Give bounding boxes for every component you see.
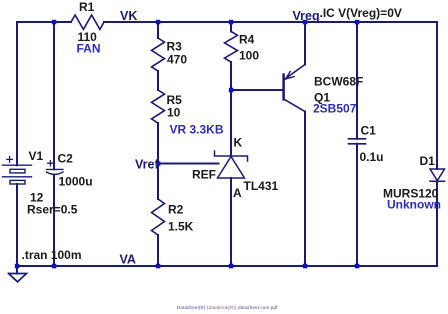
- svg-text:0.1u: 0.1u: [360, 150, 384, 164]
- svg-text:REF: REF: [192, 168, 216, 182]
- wire C2 column upper: [53, 22, 55, 169]
- svg-text:TL431: TL431: [244, 179, 279, 193]
- svg-text:R4: R4: [239, 33, 255, 47]
- svg-text:2SB507: 2SB507: [313, 102, 357, 116]
- wire top rail left: [17, 21, 71, 23]
- wire emitter up: [304, 22, 306, 65]
- transistor Q1: [284, 65, 305, 112]
- wire R2 bottom: [157, 235, 159, 266]
- wire top rail right: [104, 21, 437, 23]
- wire R3-R5: [157, 71, 159, 90]
- svg-text:BCW68F: BCW68F: [314, 75, 363, 89]
- svg-text:1000u: 1000u: [59, 175, 93, 189]
- svg-text:R1: R1: [79, 0, 95, 14]
- capacitor C1: [349, 139, 366, 144]
- diode D1: [430, 169, 445, 181]
- svg-text:VA: VA: [120, 253, 136, 267]
- svg-text:C2: C2: [58, 152, 74, 166]
- node junction R4 top: [229, 20, 234, 25]
- wire REF from Vref: [158, 163, 219, 165]
- node junction C1 bottom: [355, 264, 360, 269]
- svg-text:Vreg: Vreg: [293, 9, 320, 23]
- svg-text:Unknown: Unknown: [387, 198, 441, 212]
- wire base: [231, 89, 283, 91]
- svg-text:.tran 100m: .tran 100m: [22, 248, 82, 262]
- wire R3 top stub: [157, 22, 159, 38]
- ground: [16, 266, 18, 274]
- svg-text:.IC V(Vreg)=0V: .IC V(Vreg)=0V: [320, 6, 402, 20]
- svg-text:Rser=0.5: Rser=0.5: [27, 203, 78, 217]
- svg-text:R2: R2: [168, 203, 184, 217]
- node junction collector: [303, 264, 308, 269]
- wire C1 column lower: [356, 144, 358, 266]
- resistor R1: [71, 15, 104, 29]
- resistor R3: [152, 38, 165, 71]
- wire collector down: [304, 112, 306, 267]
- wire D1 column upper: [436, 22, 438, 169]
- resistor R5: [152, 90, 165, 123]
- wire R5 to Vref node: [157, 123, 159, 164]
- node Vreg junction emitter: [303, 20, 308, 25]
- svg-text:K: K: [234, 136, 243, 150]
- node junction TL431 anode: [229, 264, 234, 269]
- wire left column upper: [16, 22, 18, 165]
- svg-text:VK: VK: [120, 9, 137, 23]
- resistor R2: [152, 199, 165, 235]
- TL431 U1: [215, 151, 248, 178]
- watermark: [177, 305, 277, 310]
- wire C2 column lower: [53, 175, 55, 266]
- node junction R3 top: [156, 20, 161, 25]
- wire bottom rail: [17, 265, 437, 267]
- svg-text:FAN: FAN: [77, 42, 101, 56]
- svg-text:100: 100: [239, 49, 259, 63]
- capacitor C2: [47, 161, 64, 175]
- svg-text:D1: D1: [420, 154, 436, 168]
- wire TL431 anode: [230, 178, 232, 266]
- svg-text:A: A: [233, 186, 242, 200]
- svg-text:C1: C1: [361, 124, 377, 138]
- svg-text:R3: R3: [167, 40, 183, 54]
- wire R4 top stub: [230, 22, 232, 32]
- wire D1 column lower: [436, 181, 438, 266]
- wire C1 column upper: [356, 22, 358, 139]
- svg-text:VR 3.3KB: VR 3.3KB: [170, 123, 224, 137]
- node junction base: [229, 88, 234, 93]
- node junction C2 bottom: [52, 264, 57, 269]
- wire K line: [230, 90, 232, 156]
- node junction ground: [15, 264, 19, 269]
- node VK junction C2 top: [52, 20, 57, 25]
- battery V1: [3, 157, 32, 184]
- resistor R4: [225, 32, 238, 63]
- svg-text:V1: V1: [29, 149, 44, 163]
- svg-text:Vref: Vref: [135, 158, 159, 172]
- wire Vref to R2: [157, 164, 159, 200]
- node junction C1 top: [355, 20, 360, 25]
- svg-text:470: 470: [167, 53, 187, 67]
- wire left column lower: [16, 184, 18, 266]
- node junction R2 bottom: [156, 264, 161, 269]
- svg-text:1.5K: 1.5K: [168, 220, 194, 234]
- svg-text:10: 10: [167, 106, 181, 120]
- wire R4 to base node: [230, 62, 232, 90]
- node Vref junction: [156, 161, 161, 166]
